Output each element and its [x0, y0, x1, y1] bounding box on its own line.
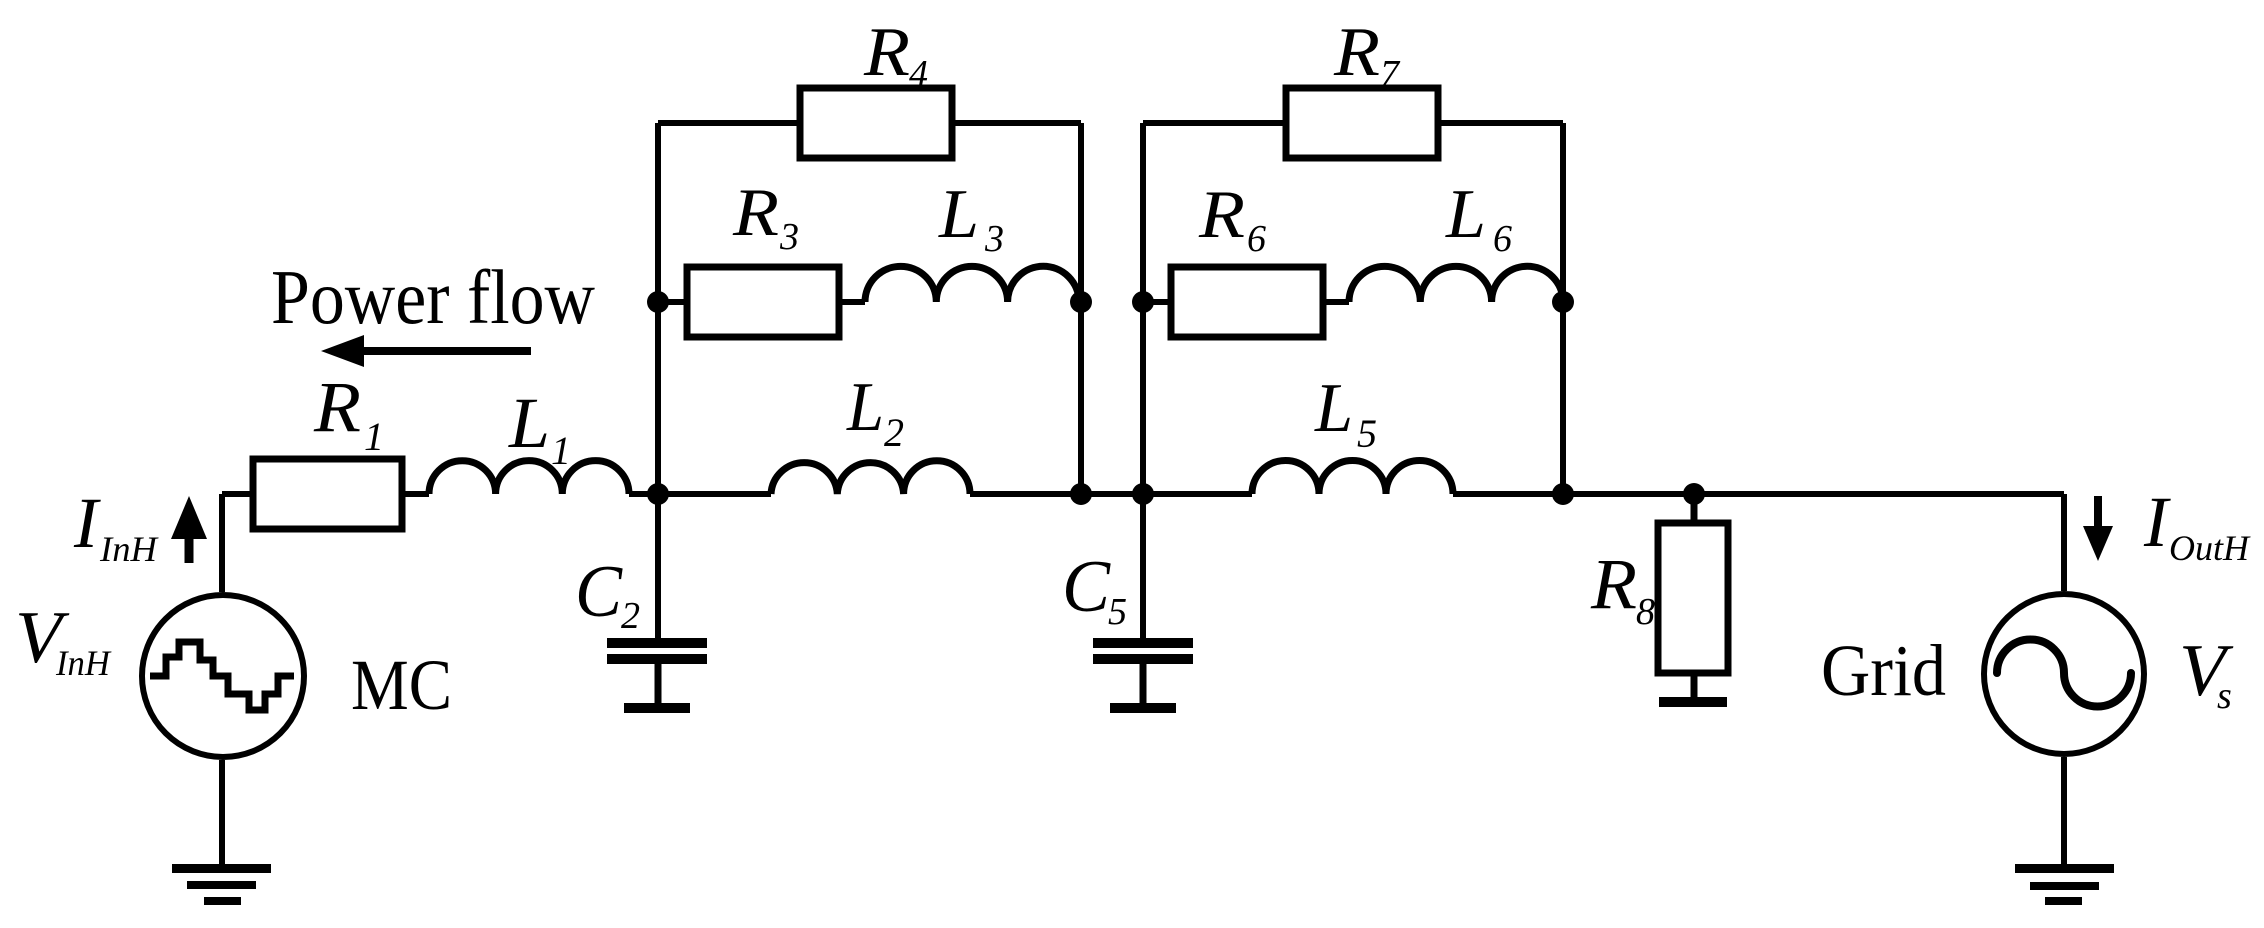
svg-text:8: 8 [1636, 591, 1655, 633]
svg-text:R: R [1333, 14, 1380, 91]
svg-text:6: 6 [1247, 218, 1266, 260]
svg-text:InH: InH [55, 643, 112, 683]
node junction dot right of L3 [1070, 291, 1092, 313]
resistor R7 [1286, 88, 1438, 158]
wire middle branch 1 left stub [658, 299, 687, 305]
svg-text:R: R [1590, 544, 1637, 624]
capacitor C2 [607, 638, 707, 648]
wire R6 to L6 [1323, 299, 1349, 305]
svg-text:Power flow: Power flow [271, 254, 595, 340]
voltage source Vs (Grid) [1984, 594, 2144, 754]
resistor R4 [800, 88, 952, 158]
wire MC source top stub [219, 494, 225, 592]
wire R8 bottom stub [1691, 673, 1698, 697]
node junction dot at C2 branch [647, 483, 669, 505]
wire R8 top stub [1691, 494, 1698, 523]
svg-text:s: s [2217, 675, 2232, 717]
svg-text:3: 3 [779, 216, 799, 258]
svg-text:5: 5 [1108, 591, 1127, 633]
svg-text:C: C [1062, 546, 1112, 628]
svg-text:3: 3 [984, 218, 1004, 260]
wire MC source bottom stub [219, 760, 225, 866]
svg-text:MC: MC [351, 645, 452, 725]
svg-text:5: 5 [1357, 411, 1377, 456]
ground grid [2015, 864, 2114, 873]
node junction dot left of R6 [1132, 291, 1154, 313]
node junction dot at R8 branch [1683, 483, 1705, 505]
svg-text:1: 1 [364, 414, 384, 459]
inductor L5 [1252, 461, 1453, 495]
wire vertical section1 left [655, 123, 661, 638]
svg-text:L: L [1445, 176, 1486, 253]
svg-text:1: 1 [551, 428, 571, 473]
wire grid source top stub [2061, 494, 2067, 591]
svg-text:L: L [846, 369, 884, 446]
svg-text:InH: InH [99, 529, 159, 569]
ground C5 [1110, 703, 1176, 713]
wire grid source bottom stub [2061, 757, 2067, 866]
arrow I_InH (up) [185, 536, 194, 563]
svg-text:R: R [1198, 176, 1245, 252]
svg-text:R: R [313, 367, 361, 447]
node junction dot at section2 right leg [1552, 483, 1574, 505]
wire top rail section 1 [658, 120, 1081, 126]
arrow power flow (left) [362, 347, 531, 355]
inductor L6 [1349, 266, 1563, 302]
wire top rail section 2 [1143, 120, 1563, 126]
wire main horizontal left segment [222, 491, 253, 497]
svg-text:6: 6 [1493, 218, 1512, 260]
resistor R3 [687, 267, 839, 337]
voltage source V_InH (MC) [142, 595, 304, 757]
grid sine waveform [1997, 640, 2131, 707]
node junction dot at C5 branch [1132, 483, 1154, 505]
wire L1 to L2 through node A [629, 491, 771, 497]
svg-text:L: L [508, 383, 550, 463]
ground MC [172, 864, 271, 873]
inductor L2 [771, 461, 970, 494]
resistor R6 [1171, 267, 1323, 337]
wire vertical section2 right [1560, 123, 1566, 494]
svg-text:OutH: OutH [2169, 528, 2251, 568]
inductor L1 [429, 461, 629, 494]
svg-text:I: I [73, 483, 101, 563]
svg-text:Grid: Grid [1821, 630, 1946, 711]
capacitor C5 [1093, 638, 1193, 648]
wire R3 to L3 [839, 299, 865, 305]
svg-text:R: R [863, 14, 910, 91]
svg-text:I: I [2143, 482, 2171, 562]
svg-text:L: L [1314, 370, 1353, 447]
svg-text:4: 4 [909, 53, 928, 95]
resistor R1 [253, 459, 402, 529]
svg-text:C: C [575, 551, 624, 633]
ground R8 [1659, 697, 1727, 707]
MC stepped waveform [150, 642, 294, 710]
node junction dot right of L6 [1552, 291, 1574, 313]
svg-text:7: 7 [1380, 53, 1401, 95]
wire middle branch 2 left stub [1143, 299, 1171, 305]
wire vertical section1 right [1078, 123, 1084, 494]
svg-text:2: 2 [621, 595, 640, 637]
wire L5 to right corner through nodes D and E [1453, 491, 2064, 497]
svg-text:2: 2 [884, 410, 904, 455]
svg-text:L: L [938, 176, 979, 253]
wire vertical section2 left [1140, 123, 1146, 638]
ground C2 [624, 703, 690, 713]
wire L2 to L5 through nodes B and C [970, 491, 1252, 497]
svg-text:R: R [732, 174, 779, 250]
node junction dot left of R3 [647, 291, 669, 313]
arrow I_OutH (down) [2094, 496, 2102, 528]
wire R1 to L1 [402, 491, 429, 497]
resistor R8 [1658, 523, 1728, 673]
inductor L3 [865, 266, 1079, 302]
node junction dot at section1 right leg [1070, 483, 1092, 505]
